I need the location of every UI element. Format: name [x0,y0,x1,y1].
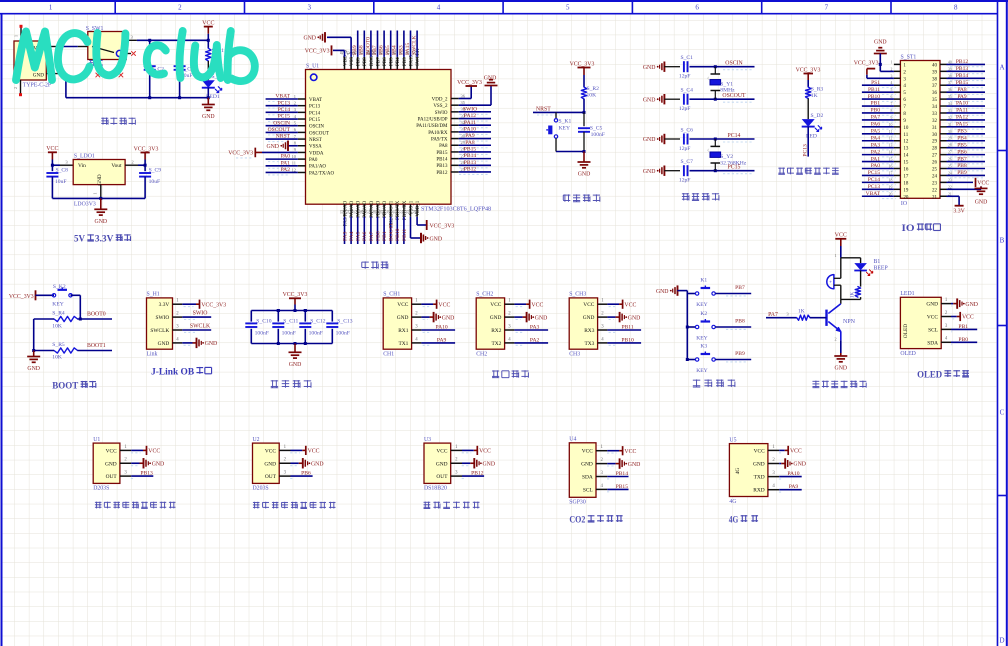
svg-text:A: A [999,64,1004,72]
svg-text:S_H1: S_H1 [147,292,160,298]
svg-text:VCC_3V3: VCC_3V3 [854,61,879,67]
svg-text:RX2: RX2 [491,328,501,334]
svg-text:PA2/TX/AO: PA2/TX/AO [309,171,334,176]
svg-text:GND: GND [874,39,887,45]
svg-text:BOOT0: BOOT0 [87,312,106,318]
svg-text:2: 2 [178,4,182,12]
svg-text:GND: GND [442,315,455,321]
svg-text:GND: GND [266,144,279,150]
svg-text:VCC: VCC [490,302,501,308]
svg-text:26: 26 [932,161,938,166]
svg-text:S_D2: S_D2 [811,113,824,119]
svg-text:1K: 1K [798,308,805,314]
svg-text:PB1: PB1 [871,101,881,107]
svg-text:10K: 10K [52,323,62,329]
svg-text:U5: U5 [729,437,736,443]
svg-text:PB7: PB7 [376,57,381,66]
svg-text:PS1: PS1 [871,80,880,86]
svg-text:PC15: PC15 [868,170,880,176]
svg-text:U4: U4 [569,437,576,443]
svg-text:PA5: PA5 [871,129,881,135]
svg-text:2: 2 [835,337,837,342]
svg-text:NRST: NRST [309,138,322,143]
svg-text:PA10: PA10 [435,325,447,331]
svg-text:32.768KHz: 32.768KHz [720,160,746,166]
svg-text:VCC: VCC [835,232,847,238]
svg-text:PA10: PA10 [787,471,799,477]
svg-text:CH1: CH1 [383,352,394,358]
svg-text:U3: U3 [424,437,431,443]
svg-text:34: 34 [932,105,938,110]
svg-text:VBAT: VBAT [275,94,290,100]
svg-text:S_R3: S_R3 [811,86,824,92]
svg-text:7: 7 [825,4,829,12]
svg-text:4G: 4G [735,468,741,475]
svg-text:PA15: PA15 [956,122,968,128]
svg-text:VCC_3V3: VCC_3V3 [305,49,330,55]
svg-text:VCC: VCC [265,448,276,454]
svg-text:J-Link OB: J-Link OB [151,367,194,377]
svg-text:100nF: 100nF [255,331,269,337]
svg-text:OLED: OLED [903,324,909,338]
svg-text:PB1: PB1 [382,231,388,241]
svg-text:VCC: VCC [436,448,447,454]
svg-text:16: 16 [903,168,909,173]
svg-text:PC15: PC15 [309,118,321,123]
svg-text:3.3V: 3.3V [95,234,114,244]
svg-text:GND: GND [965,302,978,308]
svg-text:PA3: PA3 [530,325,540,331]
svg-text:S_R5: S_R5 [52,342,65,348]
svg-text:14: 14 [903,154,909,159]
svg-text:100nF: 100nF [282,331,296,337]
svg-text:SWCLK: SWCLK [150,328,169,334]
svg-text:VDDA: VDDA [309,151,324,156]
svg-text:GND: GND [397,315,409,321]
svg-text:PB4: PB4 [396,57,401,66]
svg-text:CH3: CH3 [569,352,580,358]
svg-text:TXD: TXD [754,475,765,481]
svg-text:PB13: PB13 [956,66,968,72]
svg-text:S_CH3: S_CH3 [569,292,586,298]
svg-text:VCC: VCC [977,181,989,187]
svg-text:SWIO: SWIO [435,111,448,116]
svg-text:PA1/AO: PA1/AO [309,165,326,170]
svg-text:BOOT: BOOT [52,381,79,391]
svg-text:S_C12: S_C12 [310,318,325,324]
svg-text:S_K1: S_K1 [559,119,572,125]
svg-text:PB15: PB15 [436,151,448,156]
svg-text:PB9: PB9 [735,351,745,357]
svg-text:VCC: VCC [148,449,160,455]
svg-text:VCC: VCC [962,315,974,321]
svg-text:KEY: KEY [696,368,708,374]
svg-text:PB7: PB7 [372,45,378,55]
svg-text:OSCIN: OSCIN [273,120,290,126]
svg-text:U2: U2 [253,437,260,443]
svg-text:PC13: PC13 [868,184,880,190]
svg-text:GND: GND [311,461,324,467]
svg-text:VCC: VCC [438,302,450,308]
svg-text:GND: GND [152,461,165,467]
svg-text:12pF: 12pF [679,178,691,184]
svg-text:36: 36 [932,91,938,96]
svg-text:PB11: PB11 [621,325,633,331]
svg-text:PA3: PA3 [342,231,348,241]
svg-text:PB15: PB15 [464,147,477,153]
svg-text:PA0: PA0 [309,158,318,163]
svg-text:S_U1: S_U1 [306,64,319,70]
svg-text:PB12: PB12 [471,471,484,477]
svg-text:SWIO: SWIO [463,106,477,112]
svg-text:VCC_3V3: VCC_3V3 [796,67,821,73]
svg-text:PA9: PA9 [957,94,967,100]
svg-text:GND: GND [581,462,593,468]
svg-text:GND: GND [483,461,496,467]
svg-text:VCC: VCC [308,449,320,455]
svg-text:PB10: PB10 [621,337,634,343]
svg-text:PA2: PA2 [530,337,540,343]
svg-text:S_C7: S_C7 [681,159,694,165]
svg-text:S_C5: S_C5 [590,125,603,131]
svg-text:PA2: PA2 [281,167,291,173]
svg-text:VCC: VCC [790,449,802,455]
svg-text:12pF: 12pF [679,74,691,80]
svg-text:5: 5 [566,4,570,12]
svg-text:S_Y2: S_Y2 [720,154,733,160]
svg-text:VCC: VCC [754,448,765,454]
svg-text:PC14: PC14 [728,133,741,139]
svg-text:37: 37 [932,84,938,89]
svg-text:SDA: SDA [927,340,938,346]
svg-text:OLED: OLED [917,371,942,381]
svg-text:PB10: PB10 [395,228,401,241]
svg-text:GND: GND [205,341,218,347]
svg-text:PA10/RX: PA10/RX [428,131,448,136]
svg-text:TYPE-C-2P: TYPE-C-2P [23,83,51,89]
svg-text:100nF: 100nF [336,331,350,337]
svg-text:GND: GND [535,315,548,321]
svg-text:2: 2 [294,100,296,105]
svg-text:12pF: 12pF [679,106,691,112]
svg-text:35: 35 [932,98,938,103]
svg-text:22: 22 [932,188,938,193]
svg-text:PB6: PB6 [957,149,967,155]
svg-text:VSS_2: VSS_2 [433,104,448,109]
svg-text:PA9/TX: PA9/TX [431,137,448,142]
svg-text:39: 39 [932,70,938,75]
svg-text:PA6/AO: PA6/AO [363,200,368,217]
svg-text:10K: 10K [587,93,597,99]
svg-text:PB15: PB15 [956,80,968,86]
svg-text:2: 2 [13,87,18,89]
svg-text:PB13: PB13 [140,471,153,477]
svg-text:GND: GND [33,73,44,79]
svg-text:10uF: 10uF [149,179,161,185]
svg-text:PA5/AO: PA5/AO [357,200,362,217]
svg-text:10K: 10K [52,355,62,361]
svg-text:BOOT1: BOOT1 [389,223,395,241]
svg-text:B: B [1000,237,1005,245]
svg-text:PB6: PB6 [301,471,311,477]
svg-text:Vin: Vin [78,163,86,169]
svg-text:1: 1 [93,192,98,194]
svg-text:B1: B1 [874,259,881,265]
svg-text:100nF: 100nF [591,132,605,138]
svg-text:PC14: PC14 [309,111,321,116]
svg-text:S_CH2: S_CH2 [476,292,493,298]
svg-text:Link: Link [147,352,158,358]
svg-text:PB3: PB3 [957,129,967,135]
svg-text:GND: GND [484,76,497,82]
svg-text:VCC: VCC [624,302,636,308]
svg-text:PA3: PA3 [871,142,881,148]
svg-text:PB13: PB13 [464,160,477,166]
svg-text:GND: GND [578,172,591,178]
svg-text:GND: GND [835,366,848,372]
svg-text:S_C9: S_C9 [149,167,162,173]
svg-text:VCC: VCC [397,302,408,308]
svg-text:S_C1: S_C1 [681,55,694,61]
svg-text:25: 25 [932,168,938,173]
svg-text:GND: GND [95,219,108,225]
svg-text:1: 1 [49,4,53,12]
svg-text:30: 30 [932,133,938,138]
svg-text:KEY: KEY [52,301,64,307]
svg-text:VCC_3V3: VCC_3V3 [201,302,226,308]
svg-text:PA11/USB/DM: PA11/USB/DM [416,124,448,129]
svg-text:VCC: VCC [106,448,117,454]
svg-text:KEY: KEY [696,336,708,342]
svg-text:U1: U1 [93,437,100,443]
svg-text:18: 18 [903,181,909,186]
svg-text:VDD_2: VDD_2 [432,97,448,102]
svg-text:PB9: PB9 [357,57,362,66]
svg-text:VBAT: VBAT [309,98,322,103]
svg-text:S_CH1: S_CH1 [383,292,400,298]
svg-text:PB14: PB14 [956,73,968,79]
svg-text:PA12: PA12 [956,115,968,121]
svg-text:PB0/AO: PB0/AO [376,200,381,218]
svg-text:OSCIN: OSCIN [725,61,743,67]
svg-text:GND: GND [27,366,40,372]
svg-text:31: 31 [932,126,938,131]
svg-text:SDA: SDA [582,475,593,481]
svg-text:4: 4 [437,4,441,12]
svg-text:10uF: 10uF [55,179,67,185]
svg-text:D203S: D203S [253,486,269,492]
svg-text:PB4: PB4 [957,135,967,141]
svg-text:PA2: PA2 [871,149,881,155]
svg-text:PB3: PB3 [403,57,408,66]
svg-text:PA7/AO: PA7/AO [370,200,375,217]
svg-text:PA9: PA9 [465,133,475,139]
svg-text:GND: GND [926,302,938,308]
svg-text:SCL: SCL [928,327,938,333]
svg-text:1: 1 [294,94,296,99]
svg-text:1: 1 [14,35,19,37]
svg-text:8MHz: 8MHz [720,88,735,94]
svg-text:PB4: PB4 [392,45,398,55]
svg-text:BOOT1: BOOT1 [87,343,106,349]
svg-text:RXD: RXD [753,488,764,494]
svg-text:PB11: PB11 [868,87,880,93]
svg-text:PA15: PA15 [405,43,411,55]
svg-text:LDO3V3: LDO3V3 [74,201,96,207]
svg-text:D: D [999,637,1004,645]
svg-text:PB7: PB7 [735,285,745,291]
svg-text:SWCLK: SWCLK [412,35,418,55]
svg-text:6: 6 [695,4,699,12]
svg-text:GND: GND [643,65,656,71]
svg-text:S_K2: S_K2 [53,284,66,290]
svg-text:PB9: PB9 [957,170,967,176]
svg-text:32: 32 [932,119,938,124]
svg-text:PA7: PA7 [871,115,881,121]
svg-text:S_C11: S_C11 [283,318,298,324]
svg-text:GND: GND [303,36,316,42]
svg-text:S_C8: S_C8 [56,167,69,173]
svg-text:17: 17 [903,174,909,179]
svg-text:VCC: VCC [202,20,214,26]
svg-text:4G: 4G [729,516,739,526]
svg-text:GND: GND [105,461,117,467]
svg-text:OUT: OUT [106,474,118,480]
svg-text:PB8: PB8 [957,163,967,169]
svg-text:PB9: PB9 [352,45,358,55]
svg-text:SWCLK: SWCLK [190,324,211,330]
svg-text:40: 40 [932,63,938,68]
svg-text:PA11: PA11 [464,120,476,126]
svg-text:PA8: PA8 [957,87,967,93]
svg-text:CO2: CO2 [569,516,585,526]
svg-text:GND: GND [264,461,276,467]
svg-text:PC13: PC13 [309,105,321,110]
svg-text:100nF: 100nF [309,331,323,337]
svg-text:PB12: PB12 [956,59,968,65]
svg-text:PB14: PB14 [436,158,448,163]
svg-text:PA9: PA9 [789,484,799,490]
svg-text:BEEP: BEEP [874,266,888,272]
svg-text:PC13: PC13 [278,100,291,106]
svg-text:KEY: KEY [696,302,708,308]
svg-text:24: 24 [932,174,938,179]
svg-text:PA11: PA11 [956,108,968,114]
svg-text:VSSA: VSSA [309,145,322,150]
svg-text:NPN: NPN [843,319,856,325]
svg-text:PB8: PB8 [735,319,745,325]
svg-text:SGP30: SGP30 [569,500,586,506]
svg-text:PB13: PB13 [436,164,448,169]
svg-text:GND: GND [643,137,656,143]
svg-text:OSCOUT: OSCOUT [268,127,291,133]
svg-text:TX1: TX1 [399,341,409,347]
svg-text:PA4: PA4 [349,231,355,241]
svg-text:PB10: PB10 [868,94,880,100]
svg-text:PB14: PB14 [464,153,477,159]
svg-text:PC14: PC14 [868,177,880,183]
svg-text:20: 20 [903,195,909,200]
svg-text:SWIO: SWIO [193,311,208,317]
svg-text:GND: GND [430,236,443,242]
svg-text:PA9: PA9 [437,337,447,343]
svg-text:+: + [829,281,832,286]
svg-text:S_Y1: S_Y1 [720,81,733,87]
svg-text:S_C4: S_C4 [681,88,694,94]
svg-text:PA7: PA7 [768,312,778,318]
svg-text:PA7: PA7 [369,231,375,241]
svg-text:21: 21 [932,195,938,200]
svg-text:VCC: VCC [479,449,491,455]
svg-text:PA6: PA6 [362,231,368,241]
svg-text:IO: IO [901,201,907,207]
svg-text:PA1: PA1 [281,160,291,166]
svg-text:GND: GND [628,462,641,468]
svg-text:SWIO: SWIO [156,315,170,321]
svg-text:CH2: CH2 [476,352,487,358]
svg-text:PA12: PA12 [464,113,476,119]
svg-text:PB3: PB3 [398,45,404,55]
svg-text:VCC_3V3: VCC_3V3 [430,223,455,229]
svg-text:28: 28 [932,147,938,152]
svg-text:PB5: PB5 [385,45,391,55]
svg-text:PB1/AO: PB1/AO [383,200,388,218]
svg-text:PC15: PC15 [278,114,291,120]
svg-text:D203S: D203S [93,486,109,492]
svg-text:S_C13: S_C13 [337,318,352,324]
svg-text:PB5: PB5 [957,142,967,148]
svg-text:PB7: PB7 [957,156,967,162]
svg-text:PA0: PA0 [281,154,291,160]
svg-text:27: 27 [932,154,938,159]
svg-text:VDD_1: VDD_1 [416,200,421,216]
svg-text:OUT: OUT [436,474,448,480]
svg-text:GND: GND [202,114,215,120]
svg-text:PB1: PB1 [958,324,968,330]
svg-text:PA12/USB/DP: PA12/USB/DP [418,117,448,122]
svg-text:PB8: PB8 [363,57,368,66]
svg-text:3.3V: 3.3V [953,209,965,215]
svg-text:Vout: Vout [111,163,122,169]
svg-text:NRST: NRST [276,134,291,140]
svg-text:PB15: PB15 [616,484,629,490]
svg-text:1K: 1K [850,292,856,299]
svg-text:OSCOUT: OSCOUT [309,131,329,136]
svg-text:29: 29 [932,140,938,145]
svg-text:10: 10 [903,126,909,131]
svg-text:PB11: PB11 [402,229,408,241]
svg-text:1K: 1K [811,93,818,99]
svg-text:OLED: OLED [900,351,915,357]
svg-text:8: 8 [954,4,958,12]
svg-text:S_LDO1: S_LDO1 [74,154,95,160]
svg-text:VCC: VCC [46,146,58,152]
svg-text:11: 11 [903,133,908,138]
svg-text:PA4/AO: PA4/AO [350,200,355,217]
svg-text:VBAT: VBAT [866,191,881,197]
svg-text:TX2: TX2 [492,341,502,347]
svg-text:PA8: PA8 [439,144,448,149]
svg-text:38: 38 [932,77,938,82]
svg-text:GND: GND [628,315,641,321]
svg-text:VCC: VCC [531,302,543,308]
svg-text:S_R4: S_R4 [52,311,65,317]
svg-text:PB8: PB8 [359,45,365,55]
svg-text:LED1: LED1 [900,291,914,297]
svg-text:S_C6: S_C6 [681,128,694,134]
svg-text:K3: K3 [700,343,707,349]
svg-text:RX3: RX3 [584,328,594,334]
